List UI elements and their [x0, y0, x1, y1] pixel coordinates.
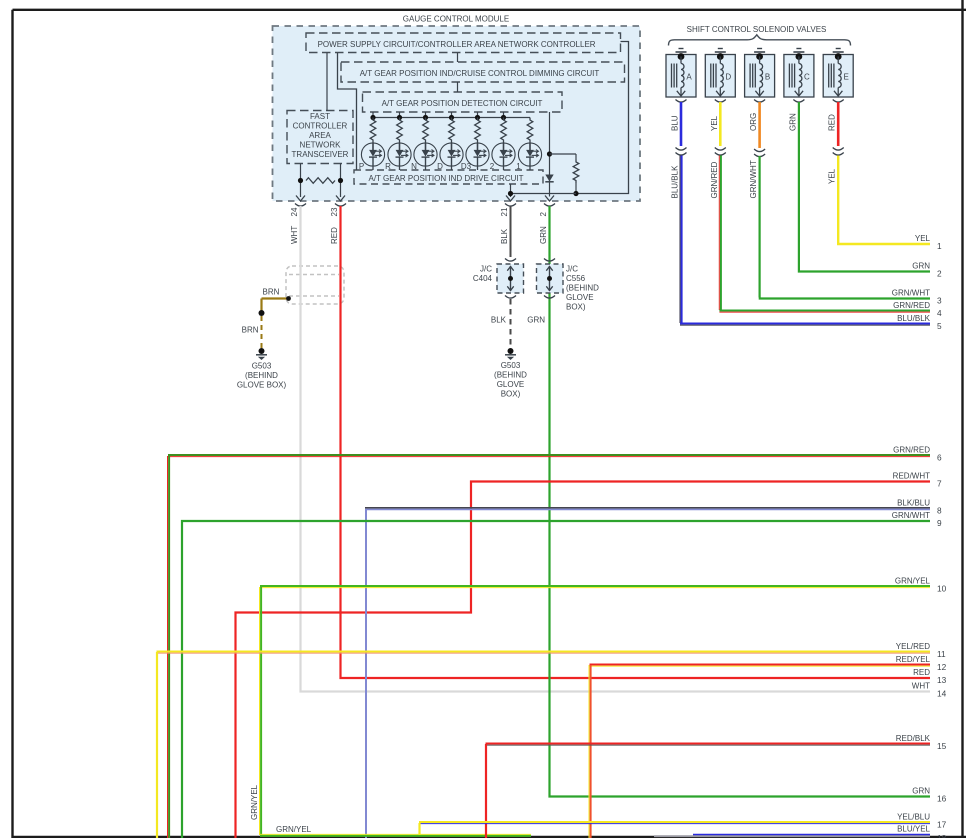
svg-text:TRANSCEIVER: TRANSCEIVER	[292, 150, 349, 159]
pin 24 connector	[290, 204, 306, 217]
wire BLK pin 21 to J/C C404	[510, 206, 512, 257]
inline connector	[754, 149, 765, 152]
wire detection circuit to pin 2	[549, 112, 551, 197]
resistor R8	[573, 154, 579, 194]
svg-text:BRN: BRN	[242, 326, 259, 335]
wire tick detection box to bus	[399, 112, 401, 118]
wire LED cathode to drive circuit	[399, 166, 401, 170]
junction node	[547, 151, 552, 156]
svg-text:RED/YEL: RED/YEL	[896, 655, 931, 664]
svg-text:BLU/BLK: BLU/BLK	[897, 314, 931, 323]
junction	[370, 115, 375, 120]
wire tick detection box to bus	[372, 112, 374, 118]
wire RED/YEL terminal 12	[590, 664, 931, 666]
resistor R4	[449, 118, 455, 143]
svg-text:1: 1	[937, 241, 942, 251]
wire GRN/YEL bottom run	[260, 833, 531, 835]
resistor R2	[397, 118, 403, 143]
junction	[475, 115, 480, 120]
svg-text:G503: G503	[501, 361, 521, 370]
wire power supply to dimming circuit	[457, 53, 459, 62]
wire BLU solenoid A	[680, 102, 683, 146]
wire GRN/YEL terminal 10	[260, 585, 930, 587]
svg-text:15: 15	[937, 741, 947, 751]
svg-text:4: 4	[937, 308, 942, 318]
svg-text:GRN: GRN	[539, 226, 548, 244]
svg-text:BRN: BRN	[263, 288, 280, 297]
svg-text:AREA: AREA	[309, 131, 331, 140]
solenoid pin connector	[715, 100, 726, 103]
svg-text:GRN/WHT: GRN/WHT	[749, 160, 758, 198]
wire ORG solenoid B	[758, 102, 761, 148]
svg-text:GRN/WHT: GRN/WHT	[892, 511, 930, 520]
svg-text:(BEHIND: (BEHIND	[494, 371, 527, 380]
svg-text:21: 21	[500, 207, 509, 216]
svg-text:BOX): BOX)	[501, 390, 521, 399]
pin arrow	[506, 196, 515, 202]
svg-text:YEL: YEL	[915, 234, 931, 243]
wire remnant bottom edge	[654, 835, 930, 837]
wire power supply to FAST transceiver	[326, 53, 328, 111]
connector	[505, 296, 516, 299]
A/T gear position ind drive circuit box	[354, 170, 543, 184]
svg-text:24: 24	[290, 207, 299, 216]
svg-text:YEL/BLU: YEL/BLU	[897, 813, 930, 822]
junction connector J/C C404	[473, 264, 524, 293]
LED P indicator D1	[361, 143, 384, 167]
resistor R6	[501, 118, 507, 143]
svg-text:WHT: WHT	[290, 226, 299, 244]
svg-text:6: 6	[937, 453, 942, 463]
svg-text:8: 8	[937, 506, 942, 516]
solenoid group brace	[669, 35, 851, 46]
svg-text:D: D	[437, 162, 443, 171]
wire GRN pin 2 to terminal 16	[550, 206, 931, 797]
junction	[286, 296, 291, 301]
wire tick detection box to bus	[425, 112, 427, 118]
junction	[397, 115, 402, 120]
wire WHT pin 24 to terminal 14	[301, 206, 931, 692]
svg-text:NETWORK: NETWORK	[300, 141, 342, 150]
svg-text:GAUGE CONTROL MODULE: GAUGE CONTROL MODULE	[403, 15, 509, 24]
svg-text:2: 2	[539, 212, 548, 217]
wire BLK/BLU terminal 8	[365, 507, 930, 509]
resistor R3	[423, 118, 429, 143]
svg-text:(BEHIND: (BEHIND	[566, 284, 599, 293]
LED R indicator D2	[388, 143, 411, 167]
inline connector	[715, 148, 726, 151]
wire tick detection box to bus	[477, 112, 479, 118]
wire power supply to drive circuit	[338, 53, 357, 170]
svg-text:D3: D3	[461, 162, 472, 171]
wire YEL/BLU terminal 17	[419, 821, 930, 823]
junction	[423, 115, 428, 120]
svg-text:7: 7	[937, 479, 942, 489]
svg-text:GRN: GRN	[788, 113, 797, 131]
wire RED/BLK terminal 15	[486, 743, 931, 745]
resistor R9 (CAN termination)	[306, 178, 335, 184]
wire FAST to pin 23	[340, 164, 342, 198]
solenoid valve C	[784, 49, 814, 98]
svg-text:GRN: GRN	[527, 316, 545, 325]
svg-text:YEL: YEL	[828, 168, 837, 184]
wire tick detection box to bus	[503, 112, 505, 118]
wire BLK (dashed) to ground	[510, 299, 512, 348]
junction	[449, 115, 454, 120]
internal bus node	[373, 117, 530, 119]
svg-text:GLOVE BOX): GLOVE BOX)	[237, 381, 287, 390]
svg-text:GLOVE: GLOVE	[566, 293, 594, 302]
svg-text:C556: C556	[566, 274, 586, 283]
svg-text:BLK/BLU: BLK/BLU	[897, 499, 930, 508]
LED D indicator D4	[440, 143, 463, 167]
LED D3 indicator D5	[466, 143, 489, 167]
resistor R1	[370, 118, 376, 143]
LED N indicator D3	[414, 143, 437, 167]
solenoid valve B	[745, 49, 775, 98]
svg-text:BLK: BLK	[491, 316, 507, 325]
svg-text:(BEHIND: (BEHIND	[245, 371, 278, 380]
pin 2 connector	[539, 204, 555, 217]
connector	[505, 259, 516, 262]
wire BLU/YEL terminal 18	[693, 834, 930, 836]
svg-text:2: 2	[490, 162, 495, 171]
wire GRN/WHT to terminal 3	[758, 156, 760, 298]
svg-text:RED: RED	[330, 227, 339, 244]
wire GRN/WHT terminal 9	[182, 521, 930, 838]
svg-text:23: 23	[330, 207, 339, 216]
solenoid pin connector	[793, 100, 804, 103]
svg-text:1: 1	[516, 162, 521, 171]
svg-text:RED: RED	[828, 114, 837, 131]
svg-text:C404: C404	[473, 274, 493, 283]
wire RED/WHT terminal 7	[236, 482, 931, 838]
solenoid valve A	[666, 49, 696, 98]
wire YEL solenoid D	[719, 102, 722, 146]
svg-text:POWER SUPPLY CIRCUIT/CONTROLLE: POWER SUPPLY CIRCUIT/CONTROLLER AREA NET…	[318, 40, 596, 49]
solenoid pin connector	[676, 100, 687, 103]
svg-text:12: 12	[937, 662, 947, 672]
wire LED cathode to drive circuit	[477, 166, 479, 170]
svg-text:SHIFT CONTROL SOLENOID VALVES: SHIFT CONTROL SOLENOID VALVES	[687, 25, 827, 34]
svg-text:BLK: BLK	[500, 228, 509, 244]
pin arrow	[296, 196, 305, 202]
svg-text:GRN/YEL: GRN/YEL	[276, 825, 312, 834]
junction	[573, 191, 578, 196]
wire YEL to terminal 1	[838, 156, 930, 245]
svg-text:GRN/RED: GRN/RED	[710, 161, 719, 198]
wire dimming to detection circuit	[457, 82, 459, 92]
svg-text:BLU: BLU	[671, 115, 680, 131]
solenoid pin connector	[833, 100, 844, 103]
svg-text:R: R	[385, 162, 391, 171]
wire BRN (dashed continuation)	[261, 316, 263, 348]
splice junction	[259, 310, 265, 316]
wire LED cathode to drive circuit	[425, 166, 427, 170]
wire FAST to pin 24	[300, 164, 302, 198]
pin 23 connector	[330, 204, 346, 217]
svg-text:G503: G503	[252, 362, 272, 371]
wire GRN/RED terminal 6	[168, 454, 930, 456]
svg-text:YEL: YEL	[710, 115, 719, 131]
svg-text:A/T GEAR POSITION IND DRIVE CI: A/T GEAR POSITION IND DRIVE CIRCUIT	[369, 174, 524, 183]
svg-text:5: 5	[937, 321, 942, 331]
svg-text:RED/WHT: RED/WHT	[893, 472, 930, 481]
wire BRN	[262, 299, 289, 314]
junction	[298, 178, 303, 183]
svg-text:WHT: WHT	[912, 682, 930, 691]
svg-text:J/C: J/C	[480, 265, 492, 274]
inline connector	[833, 148, 844, 151]
ground G503	[237, 348, 287, 390]
LED 2 indicator D6	[492, 143, 515, 167]
svg-text:BOX): BOX)	[566, 303, 586, 312]
wire internal node row	[511, 193, 577, 195]
connector housing (ghost)	[286, 266, 344, 304]
svg-text:P: P	[359, 162, 364, 171]
svg-text:GRN/RED: GRN/RED	[893, 301, 930, 310]
connector	[544, 296, 555, 299]
svg-text:J/C: J/C	[566, 265, 578, 274]
svg-text:BLU/BLK: BLU/BLK	[671, 165, 680, 199]
svg-text:GLOVE: GLOVE	[497, 380, 525, 389]
svg-text:A/T GEAR POSITION DETECTION CI: A/T GEAR POSITION DETECTION CIRCUIT	[382, 99, 543, 108]
resistor R7	[527, 118, 533, 143]
svg-text:E: E	[844, 73, 849, 82]
svg-text:3: 3	[937, 296, 942, 306]
svg-text:N: N	[411, 162, 417, 171]
svg-text:B: B	[765, 73, 770, 82]
wire RED pin 23 to terminal 13	[341, 206, 931, 678]
svg-text:GRN/WHT: GRN/WHT	[892, 289, 930, 298]
svg-text:D: D	[725, 73, 731, 82]
svg-text:GRN/YEL: GRN/YEL	[895, 577, 931, 586]
wire drive circuit to pin 21	[510, 184, 512, 197]
fast controller area network transceiver box	[287, 111, 353, 164]
wire YEL/RED terminal 11	[157, 651, 931, 653]
svg-text:18: 18	[937, 833, 947, 838]
svg-text:CONTROLLER: CONTROLLER	[293, 122, 348, 131]
svg-text:GRN: GRN	[912, 262, 930, 271]
svg-text:GRN: GRN	[912, 787, 930, 796]
svg-text:C: C	[804, 73, 810, 82]
svg-text:9: 9	[937, 518, 942, 528]
A/T gear position ind/cruise control dimming circuit box	[341, 62, 625, 82]
wire junction to resistor	[550, 153, 577, 155]
junction connector J/C C556	[537, 264, 600, 312]
svg-text:RED: RED	[913, 668, 930, 677]
svg-text:RED/BLK: RED/BLK	[896, 734, 931, 743]
junction	[338, 178, 343, 183]
svg-text:11: 11	[937, 649, 946, 659]
svg-text:16: 16	[937, 794, 947, 804]
svg-text:FAST: FAST	[310, 112, 330, 121]
pin 21 connector	[500, 204, 516, 217]
resistor R5	[475, 118, 481, 143]
svg-text:ORG: ORG	[749, 113, 758, 131]
svg-text:A/T GEAR POSITION IND/CRUISE C: A/T GEAR POSITION IND/CRUISE CONTROL DIM…	[360, 69, 600, 78]
svg-text:10: 10	[937, 584, 947, 594]
wire LED cathode to drive circuit	[372, 166, 374, 170]
connector	[544, 259, 555, 262]
wire BLU/BLK to terminal 5	[679, 156, 681, 324]
wire GRN/RED to terminal 4	[718, 156, 720, 311]
power supply circuit/controller area network controller box	[306, 33, 621, 53]
svg-text:13: 13	[937, 675, 947, 685]
LED 1 indicator D7	[518, 143, 541, 167]
solenoid pin connector	[754, 100, 765, 103]
gauge control module U1	[273, 15, 641, 202]
inline connector	[676, 148, 687, 151]
ground G503	[494, 348, 527, 399]
wire tick detection box to bus	[451, 112, 453, 118]
svg-text:YEL/RED: YEL/RED	[896, 642, 930, 651]
wire LED cathode to drive circuit	[451, 166, 453, 170]
pin arrow	[545, 196, 554, 202]
svg-text:2: 2	[937, 269, 942, 279]
wire LED cathode to drive circuit	[529, 166, 531, 170]
wire GRN solenoid C to terminal 2	[799, 102, 930, 272]
pin arrow	[336, 196, 345, 202]
svg-text:BLU/YEL: BLU/YEL	[897, 825, 930, 834]
solenoid valve E	[823, 49, 853, 98]
wire LED cathode to drive circuit	[503, 166, 505, 170]
wire power supply right to internal bus	[576, 42, 629, 194]
svg-text:GRN/YEL: GRN/YEL	[250, 784, 259, 820]
junction	[508, 191, 513, 196]
svg-text:GRN/RED: GRN/RED	[893, 446, 930, 455]
svg-text:17: 17	[937, 820, 947, 830]
solenoid valve D	[705, 49, 735, 98]
wire RED solenoid E	[837, 102, 840, 146]
svg-text:A: A	[686, 73, 692, 82]
junction	[501, 115, 506, 120]
diode D8	[545, 175, 553, 182]
svg-text:14: 14	[937, 689, 947, 699]
A/T gear position detection circuit box	[363, 92, 563, 112]
